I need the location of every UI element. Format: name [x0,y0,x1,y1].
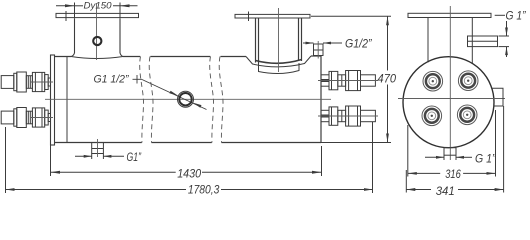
side tab [492,88,503,106]
dimension 1430 [51,145,322,176]
vessel shell (side view) [55,56,322,143]
svg-text:G1”: G1” [127,150,142,164]
vessel left end disc [51,55,55,145]
end view flange [408,13,491,17]
fitting lower left [1,108,50,128]
bottom stub end view [444,148,456,156]
dimension G1 bottom end view [425,155,472,160]
svg-text:G 1”: G 1” [475,153,497,165]
nozzle 2 body [256,18,302,64]
end view vertical centerline [449,6,451,160]
svg-text:Dy150: Dy150 [84,0,113,11]
fitting lower right [321,106,375,126]
fitting upper left [1,72,50,92]
dimension Dy150 [56,3,138,19]
nozzle Dy150 flange [56,11,139,21]
svg-text:316: 316 [445,167,461,181]
boss circle G1 1/2 [178,91,194,107]
dimension G1/2 [303,42,342,44]
nozzle Dy150 pipe [71,18,123,58]
coupling G1/2 stub [314,41,324,59]
break line pair 2 [210,57,223,143]
nozzle 2 flange [235,12,310,22]
nozzle 2 saddle [246,56,311,74]
hole on nozzle Dy150 [93,37,101,45]
svg-text:G1 1/2”: G1 1/2” [94,74,130,86]
svg-text:G 1”: G 1” [506,11,527,23]
port bottom-right [457,105,477,125]
coupling G1 top right stub [468,36,498,47]
end view shell circle [403,57,494,148]
svg-text:1780,3: 1780,3 [188,183,220,197]
dimension 1780,3 [5,122,373,193]
dimension G1 top right [495,15,509,57]
end view horizontal centerline [398,98,505,100]
dimension 316 [408,110,496,177]
svg-text:1430: 1430 [177,167,201,181]
port top-left [423,71,443,91]
nozzle 2 centerline [278,8,280,72]
svg-text:341: 341 [436,184,455,198]
dimension 470 [311,16,391,142]
port top-right [458,71,478,91]
dimension 341 [406,106,503,193]
bottom coupling G1 stub [92,143,104,154]
port bottom-left [422,106,442,126]
break line pair 1 [140,57,153,143]
nozzle Dy150 centerline [96,3,98,60]
dimension G1 bottom left [75,154,124,160]
fitting upper right [321,71,375,91]
svg-text:470: 470 [378,71,397,85]
svg-text:G1/2”: G1/2” [345,37,372,51]
vessel centerline [45,98,331,100]
end view nozzle tube [428,18,472,64]
